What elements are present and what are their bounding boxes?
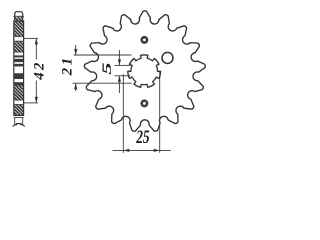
hatch band B xyxy=(14,41,24,52)
side view top tooth tab xyxy=(15,12,23,21)
svg-text:42: 42 xyxy=(32,60,48,80)
plain hole xyxy=(162,52,173,63)
sprocket teeth outline xyxy=(84,11,205,131)
dim 25 line xyxy=(113,149,171,151)
hatch band C xyxy=(14,85,24,100)
dim 5 ext bottom xyxy=(115,75,131,77)
side view bottom tooth tab xyxy=(14,116,24,118)
dim 21 ext bottom xyxy=(73,82,132,84)
svg-text:25: 25 xyxy=(135,128,149,148)
rivet hole top xyxy=(142,37,147,42)
dim 25 ext right xyxy=(159,72,161,153)
hatch band D xyxy=(14,105,24,116)
spline stripes bottom xyxy=(14,74,23,79)
side view body outline xyxy=(14,21,24,115)
rivet hole bottom xyxy=(142,101,147,106)
dim 42 extension top xyxy=(24,37,38,39)
dim 5 ext top xyxy=(115,64,131,66)
spline bore xyxy=(128,55,161,87)
svg-text:5: 5 xyxy=(100,62,114,75)
dim 21 ext top xyxy=(74,54,132,56)
top tab hatch xyxy=(15,17,23,21)
dim 25 ext left xyxy=(122,74,124,153)
hatch band A xyxy=(14,21,24,36)
dim 21 line top tail xyxy=(75,45,77,55)
dim 21 line bottom tail xyxy=(75,83,77,91)
dim 5 line bottom tail xyxy=(118,76,120,93)
dim 42 line xyxy=(35,38,37,59)
band lines xyxy=(14,35,24,37)
dim 5 line top tail xyxy=(118,50,120,65)
spline stripes top xyxy=(14,55,23,57)
dim 42 extension bottom xyxy=(24,102,38,104)
svg-text:21: 21 xyxy=(59,55,75,76)
